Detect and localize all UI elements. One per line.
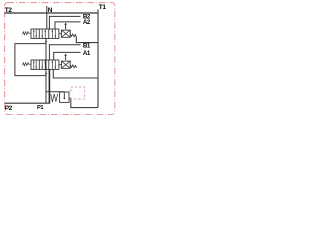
valve V2 centering spring (left): [23, 63, 32, 66]
wire: top tank line T2-N-T1: [5, 12, 98, 14]
block boundary (pink dash-dot border): [5, 3, 115, 115]
wire: port A2: [55, 22, 81, 29]
relief valve internal arrow: [63, 92, 65, 99]
svg-text:A1: A1: [83, 50, 91, 57]
valve V2 actuator box with X (right): [59, 61, 70, 68]
wire: port B1: [49, 45, 80, 60]
wire: N trunk: [46, 6, 48, 29]
svg-text:P2: P2: [5, 105, 13, 112]
valve V1 actuator spring (right squiggle): [70, 34, 76, 37]
wire: valve V1 spring anchor to T1 trunk: [76, 36, 98, 42]
relief valve RV1 body: [60, 92, 69, 102]
valve V2 actuator spring (right squiggle): [70, 65, 76, 68]
svg-text:T2: T2: [5, 7, 13, 14]
wire: port A1: [54, 52, 81, 60]
wire: T1 trunk: [97, 10, 99, 108]
wire: relief valve outlet to tank trunk: [69, 98, 98, 107]
pilot line (magenta dashed): [70, 87, 85, 99]
svg-text:T1: T1: [99, 4, 107, 11]
arrow stub above valve 2 actuator: [65, 55, 67, 60]
wire: bypass wrap around valve 2: [15, 44, 46, 76]
valve V1 actuator box with X (right): [59, 30, 70, 37]
svg-text:N: N: [48, 7, 53, 14]
valve V1 cell arrows: [34, 29, 56, 39]
svg-text:P1: P1: [37, 105, 43, 111]
flow arrowhead on carryover (lower): [45, 73, 47, 75]
wire: relief valve inlet: [46, 91, 65, 93]
arrow stub above valve 1 actuator: [65, 24, 67, 29]
valve V2 cell arrows: [34, 60, 56, 70]
valve V1 centering spring (left): [23, 32, 32, 35]
flow arrowhead on carryover (upper): [45, 41, 47, 43]
valve V1: directional spool valve body: [31, 29, 59, 38]
wire: P2-P1 bottom line: [5, 102, 51, 104]
wire: port B2: [49, 16, 80, 29]
valve V2: directional spool valve body: [31, 60, 59, 69]
wire: P1 pressure trunk (bold): [48, 69, 50, 103]
wire: center carryover V (valve1 bottom to P line): [45, 38, 47, 103]
svg-text:A2: A2: [83, 19, 91, 26]
relief valve spring: [51, 94, 58, 102]
svg-text:B1: B1: [83, 42, 91, 49]
wire: valve V2 tank stub to trunk: [53, 69, 98, 78]
